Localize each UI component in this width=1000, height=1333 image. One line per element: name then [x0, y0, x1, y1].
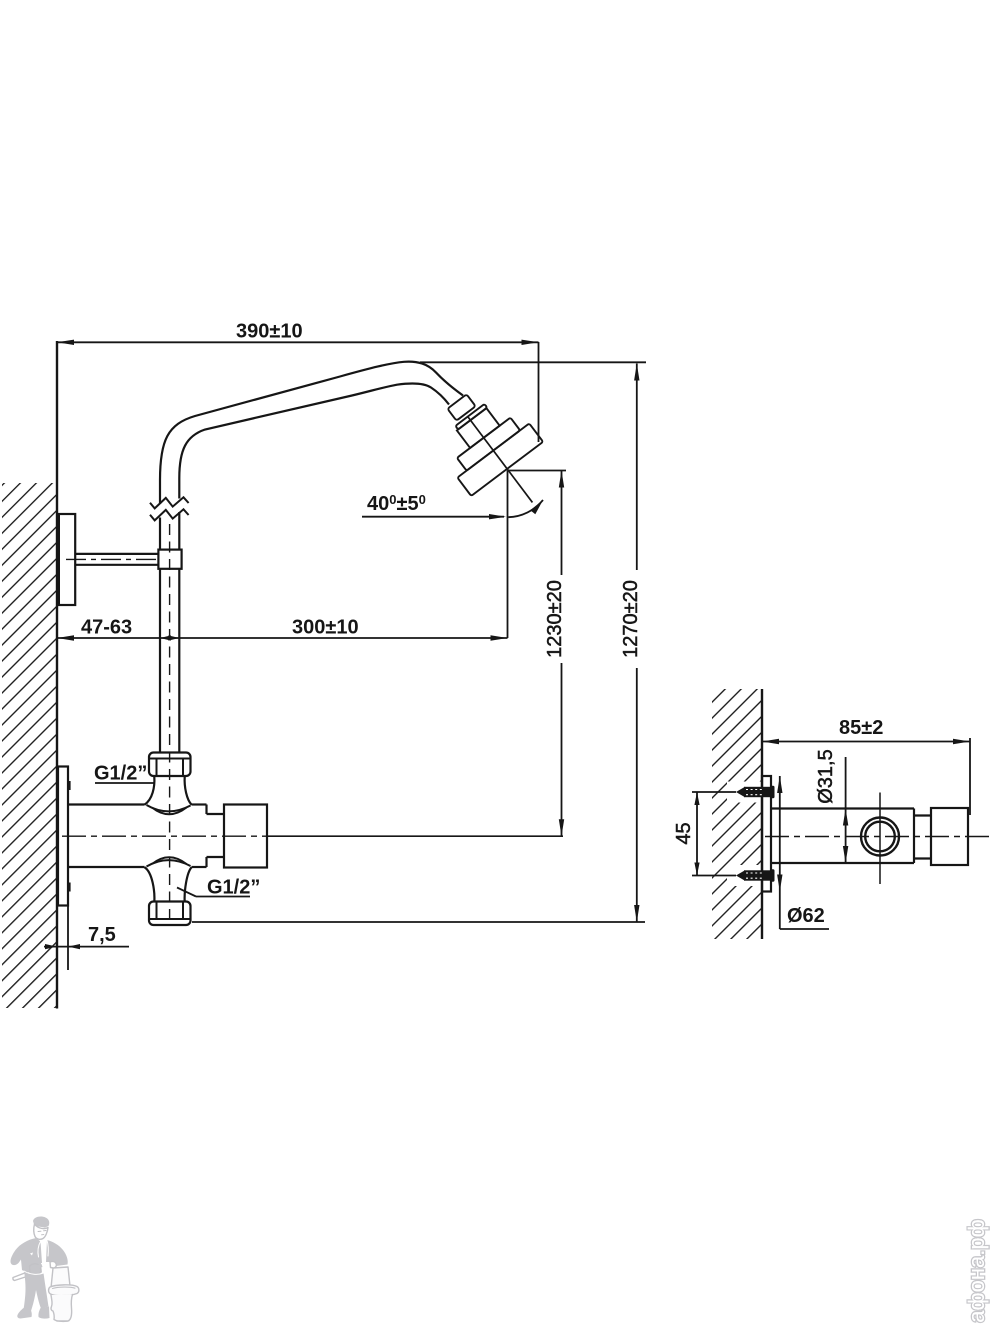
40 deg angle arc	[508, 500, 543, 517]
dim 7,5	[44, 946, 129, 948]
G1/2 lower leader underline + diagonal	[196, 896, 250, 898]
wall edge line	[56, 341, 58, 1009]
wall edge line right	[761, 689, 763, 939]
trousers	[24, 1271, 49, 1311]
head washer ring	[455, 404, 487, 430]
dim 1230+-20 vertical line	[561, 471, 563, 576]
jacket body	[11, 1238, 42, 1274]
lower tee connector	[145, 867, 155, 902]
spout tube inner edge	[179, 383, 449, 478]
svg-text:афона.рф: афона.рф	[964, 1219, 989, 1322]
stem vertical crosshair	[879, 793, 881, 885]
valve stem outer circle	[861, 818, 899, 856]
svg-text:45: 45	[673, 822, 695, 844]
shirt front	[40, 1240, 47, 1263]
valve neck	[207, 813, 225, 815]
G1/2 upper leader underline	[95, 782, 155, 784]
40 deg leader line with arrow	[362, 516, 504, 518]
svg-text:1230±20: 1230±20	[544, 580, 566, 658]
slider block on riser	[158, 550, 181, 569]
toilet pedestal	[51, 1295, 73, 1322]
handle right view	[931, 808, 968, 865]
upper tee fillet arcs	[147, 805, 191, 811]
svg-text:7,5: 7,5	[88, 924, 116, 946]
svg-text:Ø31,5: Ø31,5	[815, 749, 837, 803]
right hand on tank	[50, 1262, 56, 1269]
riser dashed centerline	[169, 524, 171, 923]
face features	[38, 1231, 46, 1235]
pocket square	[30, 1253, 33, 1256]
flange screw stubs	[68, 781, 71, 790]
valve horizontal centerline	[62, 835, 267, 837]
valve body right edge	[205, 805, 207, 815]
upper mounting screw	[736, 786, 775, 798]
dim 85+-2 line	[762, 741, 970, 743]
valve body bottom edge	[68, 866, 145, 868]
dim 390 right extension line	[538, 342, 540, 442]
bracket arm to riser	[75, 553, 158, 555]
svg-text:390±10: 390±10	[236, 321, 303, 343]
lower mounting screw	[736, 869, 775, 881]
lower hex nut	[149, 902, 191, 926]
svg-text:47-63: 47-63	[81, 617, 132, 639]
pipe wrench	[13, 1271, 32, 1281]
wall bracket plate	[59, 514, 75, 605]
lower tee fillet arcs	[147, 860, 191, 866]
pipe break symbol (double zigzag)	[150, 497, 189, 508]
toilet tank	[51, 1267, 70, 1288]
dim 1270+-20 vertical line	[636, 364, 638, 571]
svg-text:300±10: 300±10	[292, 617, 359, 639]
jacket lapels	[38, 1241, 48, 1258]
svg-text:400±50: 400±50	[367, 492, 426, 515]
right shoe	[38, 1307, 49, 1319]
upper tee connector	[145, 777, 155, 805]
shower head group (rotated about tube end)	[421, 375, 569, 530]
white clearance around screws	[727, 782, 761, 803]
dim 1230 top extension (head tip level)	[508, 470, 566, 472]
svg-text:1270±20: 1270±20	[620, 580, 642, 658]
svg-text:Ø62: Ø62	[787, 905, 825, 927]
riser pipe right line (with break gap)	[178, 478, 180, 499]
plumber hair	[33, 1217, 49, 1228]
valve flange on wall	[58, 767, 68, 906]
upper hex nut	[149, 753, 191, 777]
spout tube outer edge	[160, 362, 463, 480]
valve body top edge	[68, 803, 145, 805]
toilet bowl rim	[49, 1285, 79, 1296]
vertical extension from head tip	[507, 471, 509, 639]
riser pipe left line (with break gap)	[159, 480, 161, 504]
neck right view	[914, 814, 931, 816]
main centerline right view	[765, 836, 993, 838]
dim 390+-10 line	[57, 341, 539, 343]
head mid body	[457, 408, 500, 448]
top extension line (spout top)	[420, 361, 646, 363]
plumber logo watermark	[11, 1217, 79, 1322]
head wide ring	[457, 418, 520, 471]
left shoe	[17, 1308, 31, 1319]
svg-text:G1/2”: G1/2”	[94, 763, 147, 785]
svg-text:85±2: 85±2	[839, 717, 883, 739]
riser centerline arrows for 47-63	[160, 635, 171, 640]
dim 45 vertical line	[696, 792, 698, 876]
dim 1270 bottom extension line	[192, 921, 645, 923]
dim dia62 line with outward arrows	[779, 776, 781, 929]
dim dia31,5 vertical line	[845, 757, 847, 864]
dim 300/47-63 shared line	[57, 637, 508, 639]
svg-text:G1/2”: G1/2”	[207, 877, 260, 899]
wall hatching right	[712, 689, 762, 939]
bow tie	[39, 1241, 46, 1246]
head face plate	[457, 423, 543, 496]
valve handle	[224, 805, 267, 868]
head collar	[447, 394, 475, 420]
plumber face	[34, 1224, 48, 1239]
dim 45 extension lines (screw axes)	[692, 791, 736, 793]
left forearm and hand with wrench	[21, 1259, 35, 1273]
arm centerline	[66, 558, 177, 560]
wall hatching left	[2, 483, 57, 1008]
valve stem inner circle	[865, 822, 895, 852]
flange plate right view	[762, 776, 771, 892]
dia62 label underline	[780, 928, 829, 930]
head axis line and extension beyond tip	[468, 417, 532, 502]
dim 85 right extension	[969, 738, 971, 815]
valve body pipe right view	[771, 807, 914, 809]
